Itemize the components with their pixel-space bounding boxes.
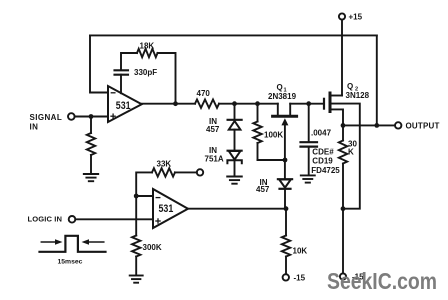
wire SIGNAL IN to op-amp U1 + input bbox=[75, 116, 108, 118]
wire D1 to D2 bbox=[234, 130, 236, 151]
terminal -15 right bbox=[340, 273, 364, 282]
svg-text:3N128: 3N128 bbox=[346, 91, 370, 100]
resistor R6 33K bbox=[152, 159, 175, 176]
resistor R1 18K bbox=[137, 41, 158, 57]
ground signal bias bbox=[84, 174, 98, 181]
wire LOGIC IN to U2 + input bbox=[75, 218, 153, 220]
pulse arrows bbox=[41, 239, 104, 245]
+15 supply terminal bbox=[339, 13, 363, 22]
wire U1 output to Q1 drain bbox=[142, 103, 195, 105]
terminal SIGNAL IN bbox=[30, 113, 75, 132]
ground clamp diodes bbox=[227, 177, 242, 184]
resistor R2 input bias bbox=[87, 117, 95, 174]
terminal 33K reference bbox=[197, 169, 203, 175]
svg-text:531: 531 bbox=[159, 203, 174, 215]
node U2 output junction bbox=[284, 206, 289, 211]
wire D2 to ground bbox=[234, 162, 236, 177]
transistor Q2 3N128 bbox=[324, 82, 370, 209]
ground 300K bbox=[130, 276, 143, 283]
wire 18K to right drop bbox=[158, 53, 176, 102]
svg-text:-15: -15 bbox=[294, 273, 306, 282]
wire down to diode D1 bbox=[234, 104, 236, 120]
svg-text:CDE#: CDE# bbox=[312, 147, 334, 156]
node source/output junction bbox=[341, 123, 346, 128]
pulse waveform symbol bbox=[40, 236, 106, 252]
wire 33K to reference terminal bbox=[175, 171, 197, 173]
svg-text:330pF: 330pF bbox=[134, 68, 157, 77]
svg-text:15msec: 15msec bbox=[58, 258, 83, 265]
svg-text:300K: 300K bbox=[143, 243, 162, 252]
resistor R4 100K bbox=[253, 104, 283, 160]
label CDE# CD19 FD4725 bbox=[311, 147, 340, 174]
wire inner feedback loop left/top bbox=[121, 53, 137, 69]
transistor Q1 2N3819 bbox=[268, 83, 297, 160]
wire top feedback rail bbox=[90, 34, 377, 36]
svg-text:470: 470 bbox=[197, 89, 211, 98]
wire to U2 - input bbox=[136, 195, 153, 197]
wire left feedback drop to op-amp U1 inverting input bbox=[90, 35, 108, 92]
node U2 inverting junction bbox=[134, 194, 139, 199]
node .0047 junction bbox=[306, 101, 311, 106]
wire output line bbox=[343, 124, 395, 126]
node 100K junction bbox=[255, 101, 260, 106]
node -15 junction bbox=[341, 206, 346, 211]
svg-text:OUTPUT: OUTPUT bbox=[406, 121, 440, 130]
svg-text:LOGIC IN: LOGIC IN bbox=[28, 214, 63, 223]
svg-text:.0047: .0047 bbox=[311, 129, 332, 138]
terminal LOGIC IN bbox=[28, 214, 76, 223]
svg-text:18K: 18K bbox=[140, 41, 155, 50]
svg-text:SeekIC.com: SeekIC.com bbox=[327, 268, 437, 294]
resistor R3 470 bbox=[195, 89, 219, 108]
op-amp U2 531 bbox=[153, 189, 188, 228]
wire +15 stem down to Q2 drain bbox=[341, 20, 343, 96]
node feedback/output junction bbox=[374, 123, 379, 128]
svg-text:K: K bbox=[348, 147, 354, 156]
terminal -15 left bbox=[283, 273, 306, 282]
ground hold capacitor bbox=[301, 175, 315, 182]
node signal input junction bbox=[89, 114, 94, 119]
svg-text:457: 457 bbox=[206, 125, 220, 134]
svg-text:SIGNAL: SIGNAL bbox=[30, 113, 63, 122]
svg-text:Q: Q bbox=[347, 82, 353, 91]
svg-text:CD19: CD19 bbox=[312, 156, 333, 165]
svg-text:751A: 751A bbox=[205, 154, 224, 163]
diode D2 1N751A zener bbox=[205, 146, 242, 163]
op-amp U1 531 bbox=[108, 86, 142, 122]
diode D3 1N457 bbox=[256, 178, 292, 194]
terminal OUTPUT bbox=[395, 121, 440, 130]
svg-text:+15: +15 bbox=[349, 13, 363, 22]
wire to -15 terminal bbox=[342, 209, 344, 274]
svg-text:2N3819: 2N3819 bbox=[268, 92, 297, 101]
resistor R8 10K bbox=[282, 209, 308, 275]
wire 470 to Q1 bbox=[219, 103, 278, 105]
node diode branch junction bbox=[232, 101, 237, 106]
svg-text:100K: 100K bbox=[264, 130, 283, 139]
svg-text:IN: IN bbox=[30, 122, 39, 131]
resistor R5 30K bbox=[339, 125, 358, 208]
wire capacitor to op-amp top edge bbox=[120, 75, 122, 94]
wire 100K to gate line bbox=[258, 159, 286, 161]
svg-text:531: 531 bbox=[116, 100, 131, 112]
capacitor C2 .0047 bbox=[301, 104, 332, 175]
wire right feedback riser from output node bbox=[376, 35, 378, 125]
svg-text:Q: Q bbox=[277, 83, 283, 92]
svg-text:10K: 10K bbox=[293, 246, 308, 255]
wire gate line through diode bbox=[284, 160, 286, 179]
wire 33K/300K node vertical bbox=[136, 172, 152, 235]
wire U2 output bbox=[188, 208, 286, 210]
wire Q1 source to Q2 gate bbox=[290, 103, 323, 105]
node gate/100K junction bbox=[283, 158, 288, 163]
svg-text:FD4725: FD4725 bbox=[311, 166, 340, 175]
svg-text:33K: 33K bbox=[157, 159, 172, 168]
resistor R7 300K bbox=[132, 236, 162, 276]
diode D1 1N457 bbox=[206, 117, 242, 134]
capacitor C1 330pF bbox=[115, 68, 158, 77]
svg-text:457: 457 bbox=[256, 185, 270, 194]
node feedback junction on main line bbox=[173, 101, 178, 106]
